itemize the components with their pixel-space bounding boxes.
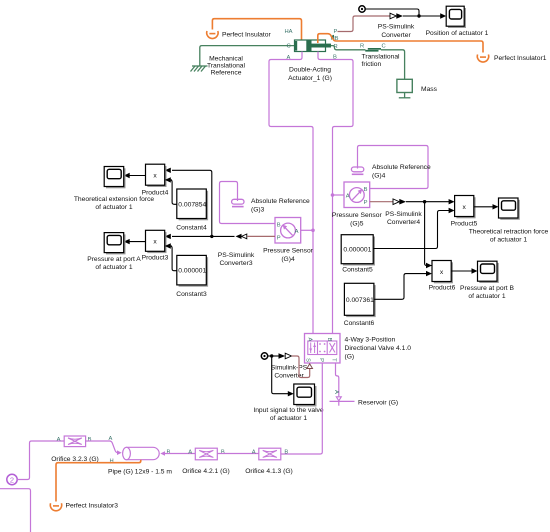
converter PS-Simulink Converter4	[393, 199, 406, 205]
wire orange HA loop to Perfect Insulator	[212, 19, 301, 40]
wire black Product6 out to scope6	[451, 270, 473, 272]
svg-text:P: P	[364, 200, 368, 206]
svg-text:of actuator 1: of actuator 1	[270, 415, 307, 422]
svg-text:(G)5: (G)5	[350, 221, 364, 228]
svg-text:Translational: Translational	[362, 54, 401, 61]
svg-text:B: B	[277, 223, 281, 229]
svg-text:Mass: Mass	[421, 86, 438, 93]
svg-text:S: S	[305, 358, 311, 362]
svg-text:H: H	[110, 459, 114, 465]
arrowhead Product6 in2	[426, 271, 432, 276]
wire orange pipe H to Perfect Insulator3	[56, 460, 141, 502]
wire magenta A-line actuator A to valve A	[269, 52, 313, 334]
arrowhead Product4 in2	[165, 177, 171, 182]
svg-text:Translational: Translational	[207, 63, 246, 70]
svg-text:(G)4: (G)4	[372, 173, 386, 180]
wire from circle to signal line	[365, 9, 419, 16]
junction	[270, 354, 273, 357]
wire magenta circle2 to Orifice 3.2.3	[17, 441, 64, 480]
svg-text:0.000001: 0.000001	[178, 268, 206, 275]
reservoir Reservoir (G)	[330, 390, 355, 406]
svg-text:P: P	[334, 29, 338, 35]
converter PS-Simulink Converter	[390, 13, 403, 19]
svg-text:of actuator 1: of actuator 1	[468, 293, 505, 300]
svg-text:Product5: Product5	[451, 221, 478, 228]
wire black Constant6 to Product6 input2	[374, 274, 428, 300]
arrowhead pipe B	[160, 451, 165, 456]
svg-text:A: A	[57, 437, 61, 443]
svg-text:B: B	[326, 338, 332, 342]
junction signal	[210, 235, 213, 238]
svg-text:(G)3: (G)3	[251, 207, 265, 214]
svg-text:R: R	[360, 44, 364, 50]
svg-text:A: A	[346, 194, 350, 200]
svg-text:B: B	[88, 437, 92, 443]
junction	[417, 14, 420, 17]
converter PS-Simulink Converter3	[236, 234, 247, 239]
port arrow HB	[330, 35, 334, 38]
svg-text:Reference: Reference	[211, 70, 242, 77]
orifice Orifice 3.2.3 (G)	[57, 436, 92, 447]
thermal port Perfect Insulator3 cup	[50, 503, 61, 511]
wire magenta orifice3.2.3 B to pipe A	[86, 441, 119, 453]
wire brown sensor5 P to converter4	[370, 201, 393, 203]
svg-text:PS-Simulink: PS-Simulink	[218, 252, 255, 259]
wire black junction down to Product6 input1	[425, 202, 448, 266]
wire black converter3 to junction	[212, 235, 235, 237]
svg-text:Pressure Sensor: Pressure Sensor	[263, 248, 314, 255]
svg-text:PS-Simulink: PS-Simulink	[385, 211, 422, 218]
product Product5	[455, 196, 476, 219]
svg-text:of actuator 1: of actuator 1	[95, 264, 132, 271]
wire green R to Translational friction	[331, 46, 366, 50]
wire black Constant3 to Product3 input2	[170, 246, 177, 271]
arrowhead Product5 in2	[449, 208, 455, 213]
scope Pressure at port B of actuator 1	[478, 261, 499, 283]
arrowhead Product3 in1	[165, 234, 171, 239]
wire black Constant4 to Product4 input2	[170, 180, 177, 204]
svg-text:PS-Simulink: PS-Simulink	[378, 23, 415, 30]
wire magenta B-line actuator B to valve B	[318, 52, 353, 334]
arrowhead Product5 in1	[449, 199, 455, 204]
product Product4	[146, 164, 167, 187]
svg-text:Converter3: Converter3	[219, 260, 252, 267]
svg-text:Theoretical extension force: Theoretical extension force	[74, 196, 155, 203]
svg-text:B: B	[221, 449, 225, 455]
source circle-dot input	[261, 353, 267, 359]
wire magenta junction to sensor4 A	[301, 229, 313, 231]
svg-text:of actuator 1: of actuator 1	[95, 204, 132, 211]
arrowhead scope1	[124, 173, 130, 178]
wire green C to Mechanical Translational Reference	[200, 46, 295, 66]
svg-text:(G): (G)	[345, 354, 355, 361]
port circle 2	[7, 474, 17, 484]
scope Input signal to the valve of actuator 1	[294, 384, 317, 407]
wire magenta orifice4.2.1 A to pipe B	[165, 453, 195, 455]
constant Constant4	[177, 189, 208, 220]
junction A-line to Pressure Sensor (G)4	[311, 229, 315, 233]
valve 4-Way 3-Position Directional Valve 4.1.0 (G)	[305, 334, 341, 364]
wire magenta bottom-left stub	[0, 489, 31, 532]
svg-text:A: A	[109, 436, 113, 442]
arrowhead Product3 in2	[165, 243, 171, 248]
junction signal right	[423, 200, 426, 203]
reference Absolute Reference (G)3	[232, 199, 244, 206]
wire black Product4 out to scope	[128, 175, 146, 177]
wire magenta valve T to Reservoir (G)	[336, 363, 339, 396]
arrowhead Product4 in1	[165, 168, 171, 173]
constant Constant3	[177, 255, 208, 286]
svg-text:B: B	[167, 450, 171, 456]
wire magenta orifice4.2.1 B to orifice4.1.3 A	[217, 453, 258, 455]
orifice Orifice 4.2.1 (G)	[188, 448, 225, 460]
svg-text:Orifice 4.2.1 (G): Orifice 4.2.1 (G)	[182, 468, 230, 475]
svg-text:A: A	[307, 338, 313, 342]
svg-text:Absolute Reference: Absolute Reference	[251, 198, 310, 205]
arrowhead input scope	[288, 391, 294, 396]
svg-text:Input signal to the valve: Input signal to the valve	[253, 407, 324, 414]
svg-text:Position of actuator 1: Position of actuator 1	[426, 30, 489, 37]
mass Mass	[397, 79, 412, 98]
svg-text:HA: HA	[285, 29, 293, 35]
svg-text:B: B	[364, 187, 368, 193]
svg-text:friction: friction	[362, 61, 382, 68]
junction B-line to Pressure Sensor (G)5	[331, 193, 335, 197]
scope Theoretical extension force of actuator 1	[104, 167, 125, 189]
actuator Double-Acting Actuator_1 (G)	[294, 40, 331, 52]
wire brown converter to valve S	[292, 356, 310, 378]
svg-text:0.000001: 0.000001	[343, 247, 371, 254]
svg-text:Product6: Product6	[429, 285, 456, 292]
wire brown sensor4 P to converter3	[248, 235, 276, 237]
arrowhead scope5	[493, 204, 499, 209]
sensor Pressure Sensor (G)4	[275, 218, 301, 244]
thermal port HA Perfect Insulator cup	[207, 31, 218, 39]
arrowhead pipe A	[117, 450, 122, 455]
reference Absolute Reference (G)4	[351, 167, 363, 174]
sensor Pressure Sensor (G)5	[344, 182, 370, 208]
wire magenta valve P down to orifice chain	[281, 363, 323, 454]
wire magenta sensor5 B to Absolute Reference (G)4	[358, 146, 429, 189]
svg-text:Mechanical: Mechanical	[209, 56, 243, 63]
svg-text:C: C	[287, 44, 291, 50]
svg-text:A: A	[188, 449, 192, 455]
svg-text:Product3: Product3	[142, 255, 169, 262]
wire black converter4 to Product5 input1	[406, 201, 450, 203]
svg-text:Constant5: Constant5	[342, 267, 373, 274]
wire black junction to Input signal scope	[272, 356, 289, 394]
svg-text:T: T	[331, 358, 337, 362]
thermal port Perfect Insulator1 cup	[477, 55, 488, 63]
wire black Constant5 to Product5 input2	[373, 211, 450, 249]
svg-text:Absolute Reference: Absolute Reference	[372, 164, 431, 171]
ground Mechanical Translational Reference	[191, 66, 208, 72]
pipe Pipe (G) 12x9 - 1.5 m	[123, 447, 160, 459]
orifice Orifice 4.1.3 (G)	[252, 448, 289, 460]
svg-text:Pressure at port B: Pressure at port B	[460, 285, 514, 292]
svg-text:Reservoir (G): Reservoir (G)	[358, 400, 398, 407]
svg-text:Pressure at port A: Pressure at port A	[87, 256, 141, 263]
svg-text:of actuator 1: of actuator 1	[490, 237, 527, 244]
svg-text:Converter4: Converter4	[387, 219, 420, 226]
svg-text:Converter: Converter	[381, 32, 411, 39]
svg-text:A: A	[333, 390, 339, 394]
svg-text:B: B	[284, 449, 288, 455]
svg-text:Converter: Converter	[274, 373, 304, 380]
arrowhead scope6	[472, 268, 478, 273]
arrowhead Product6 in1	[426, 263, 432, 268]
svg-text:4-Way 3-Position: 4-Way 3-Position	[345, 337, 396, 344]
svg-text:Simulink-PS: Simulink-PS	[271, 365, 308, 372]
wire black junction to Product3 input1	[172, 235, 212, 237]
svg-text:A: A	[295, 229, 299, 235]
svg-text:Constant6: Constant6	[344, 320, 375, 327]
svg-text:0.007361: 0.007361	[346, 297, 374, 304]
arrowhead scope2	[124, 239, 130, 244]
svg-text:Double-Acting: Double-Acting	[289, 67, 331, 74]
product Product3	[146, 230, 167, 253]
svg-text:P: P	[318, 358, 324, 362]
wire black Product5 out to scope5	[474, 206, 494, 208]
svg-text:0.007854: 0.007854	[178, 201, 206, 208]
scope Theoretical retraction force of actuator 1	[499, 198, 520, 220]
svg-text:2: 2	[10, 475, 14, 484]
scope Position of actuator 1	[446, 6, 466, 28]
source circle-dot viewer	[359, 6, 365, 12]
svg-text:Directional Valve 4.1.0: Directional Valve 4.1.0	[345, 345, 412, 352]
svg-text:Theoretical retraction force: Theoretical retraction force	[469, 229, 549, 236]
product Product6	[432, 261, 453, 284]
wire converter to scope Position of actuator 1	[403, 15, 441, 17]
svg-text:A: A	[252, 449, 256, 455]
svg-text:Orifice 4.1.3 (G): Orifice 4.1.3 (G)	[245, 468, 293, 475]
wire black circle to Simulink-PS Converter	[268, 355, 279, 357]
arrowhead into scope	[440, 13, 446, 18]
port arrow valve S	[307, 364, 313, 369]
svg-text:Pressure Sensor: Pressure Sensor	[332, 212, 383, 219]
svg-text:(G)4: (G)4	[281, 256, 295, 263]
scope Pressure at port A of actuator 1	[104, 233, 125, 255]
svg-text:Perfect Insulator: Perfect Insulator	[222, 32, 271, 39]
svg-text:Perfect Insulator3: Perfect Insulator3	[66, 503, 119, 510]
svg-text:P: P	[277, 236, 281, 242]
svg-text:C: C	[382, 44, 386, 50]
converter Simulink-PS Converter	[279, 353, 292, 359]
svg-text:Pipe (G) 12x9 - 1.5 m: Pipe (G) 12x9 - 1.5 m	[108, 469, 172, 476]
wire green friction C to Mass	[381, 50, 405, 80]
constant Constant5	[341, 235, 375, 266]
svg-text:Perfect Insulator1: Perfect Insulator1	[494, 55, 547, 62]
svg-text:Actuator_1 (G): Actuator_1 (G)	[288, 75, 332, 82]
friction Translational friction	[365, 48, 381, 52]
svg-text:Constant4: Constant4	[176, 225, 207, 232]
svg-text:Constant3: Constant3	[176, 291, 207, 298]
wire brown actuator P to PS-Simulink Converter	[338, 16, 391, 32]
wire magenta sensor4 B to Absolute Reference (G)3	[220, 182, 276, 224]
constant Constant6	[344, 283, 375, 317]
wire orange HB to Perfect Insulator1	[318, 34, 483, 53]
wire black Product3 out to scope2	[128, 241, 146, 243]
wire magenta junction to sensor5 A	[333, 194, 345, 196]
wire black junction up to Product4 input1	[172, 170, 212, 236]
